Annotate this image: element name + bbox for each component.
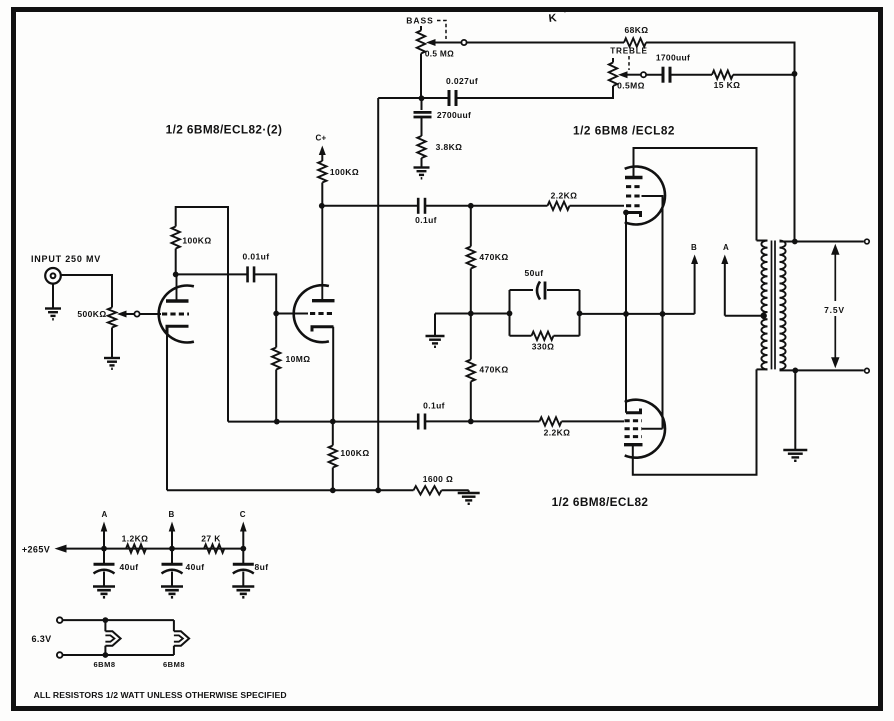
- wire treble wiper to cap: [646, 74, 663, 76]
- heater terminal top: [57, 617, 63, 623]
- label 2700uuf: [437, 110, 471, 120]
- svg-text:0.01uf: 0.01uf: [243, 252, 270, 262]
- svg-text:470KΩ: 470KΩ: [479, 252, 508, 262]
- V3 grid g2 screen: [626, 195, 642, 198]
- resistor 2.2KΩ lower grid stopper: [540, 417, 562, 425]
- svg-text:0.1uf: 0.1uf: [423, 401, 445, 411]
- triode V1 (1/2 6BM8) envelope: [159, 286, 194, 343]
- svg-text:2.2KΩ: 2.2KΩ: [544, 428, 571, 438]
- wire 15K to feedback node: [733, 74, 795, 76]
- bias box bottom branch: [510, 335, 580, 337]
- label 100KΩ (C+ dropping): [330, 167, 359, 177]
- capacitor 0.01uf coupling: [248, 266, 255, 282]
- svg-text:7.5V: 7.5V: [824, 305, 845, 315]
- wire 3.8K to ground: [421, 158, 423, 168]
- svg-text:0.027uf: 0.027uf: [446, 76, 478, 86]
- svg-text:1700uuf: 1700uuf: [656, 53, 690, 63]
- heater filament 6BM8 (1): [105, 620, 120, 655]
- node dot heater top: [103, 617, 109, 623]
- supply arrow A: [721, 255, 766, 316]
- node dot upper grid node: [468, 203, 474, 209]
- svg-text:8uf: 8uf: [255, 562, 269, 572]
- wire volume pot bottom to ground: [111, 328, 113, 359]
- ground (bias): [426, 336, 445, 347]
- potentiometer 500KΩ volume: [108, 308, 135, 328]
- V2 cathode: [312, 327, 334, 332]
- capacitor 0.1uf upper: [418, 198, 425, 214]
- ground (volume pot): [104, 358, 120, 369]
- label TREBLE with dashed pointer: [610, 47, 648, 71]
- svg-text:50uf: 50uf: [524, 268, 543, 278]
- svg-text:330Ω: 330Ω: [532, 342, 555, 352]
- V1 cathode: [167, 326, 189, 334]
- resistor 470KΩ upper: [467, 206, 475, 314]
- capacitor 1700uuf: [663, 67, 670, 83]
- svg-text:6.3V: 6.3V: [31, 634, 51, 644]
- svg-text:`: `: [563, 10, 566, 20]
- ground (secondary): [783, 450, 807, 461]
- svg-text:ALL RESISTORS 1/2 WATT UNLESS: ALL RESISTORS 1/2 WATT UNLESS OTHERWISE …: [34, 690, 287, 700]
- label 0.5MΩ (treble pot): [617, 81, 645, 91]
- capacitor 50uf: [537, 282, 545, 300]
- wire feedback line to cathode rail: [377, 98, 379, 490]
- supply tap arrow B: [169, 522, 176, 552]
- pencil mark K: [548, 10, 566, 25]
- label 1700uuf: [656, 53, 690, 63]
- V4 plate: [624, 443, 643, 446]
- label 6.3V: [31, 634, 51, 644]
- node dot V2 grid: [273, 311, 279, 317]
- V3 grid g1: [626, 204, 642, 207]
- heater terminal bottom: [57, 652, 63, 658]
- wire V1 plate to coupling cap: [176, 273, 247, 275]
- wire secondary bottom to terminal: [780, 369, 864, 371]
- node dot V2 plate/C+ junction: [319, 203, 325, 209]
- label A (supply): [723, 243, 729, 252]
- resistor 27 K: [204, 544, 224, 552]
- wire V2 plate to 0.1uf: [322, 205, 418, 207]
- wire V4 plate to transformer: [633, 369, 757, 474]
- label 1600 Ω: [423, 474, 454, 484]
- wire jack to volume pot: [61, 275, 112, 308]
- label B (tap): [168, 510, 174, 519]
- node dot secondary top: [792, 239, 798, 245]
- svg-text:INPUT 250 MV: INPUT 250 MV: [31, 254, 101, 264]
- resistor 15KΩ: [712, 71, 733, 79]
- supply feed arrow: [55, 545, 244, 553]
- label +265V: [22, 545, 50, 555]
- svg-text:100KΩ: 100KΩ: [182, 236, 211, 246]
- wire bass wiper to 68K: [467, 42, 624, 44]
- svg-text:27 K: 27 K: [201, 534, 221, 544]
- label 2.2KΩ (lower): [544, 428, 571, 438]
- wire bass pot bottom: [420, 54, 422, 99]
- node dot lower grid node: [468, 419, 474, 425]
- label 500KΩ: [77, 309, 106, 319]
- capacitor 40uf (B): [161, 549, 183, 598]
- wire V4 screen to screen bus: [642, 314, 663, 429]
- svg-text:15 KΩ: 15 KΩ: [714, 80, 741, 90]
- V2 grid: [276, 313, 335, 315]
- wire heater bottom line: [63, 654, 174, 656]
- resistor 100KΩ V1 plate load: [172, 227, 180, 275]
- wire jack ground: [52, 283, 54, 308]
- transformer core: [772, 241, 776, 370]
- svg-text:470KΩ: 470KΩ: [479, 365, 508, 375]
- supply arrow C+: [318, 146, 326, 207]
- wire V3 screen to screen bus: [642, 196, 663, 314]
- node dot bass bottom: [419, 95, 425, 101]
- wire secondary top to terminal: [780, 241, 864, 243]
- wire 68K to feedback node: [646, 43, 795, 242]
- wire 100K top bootstrap to lower line: [176, 207, 228, 422]
- transformer center tap: [761, 313, 767, 319]
- label 27 K: [201, 534, 221, 544]
- potentiometer BASS 0.5M: [417, 26, 462, 54]
- svg-text:10MΩ: 10MΩ: [286, 354, 311, 364]
- node dot bias box left: [507, 311, 513, 317]
- wire 0.1uf lower to grid node: [425, 420, 471, 422]
- wire 0.027 cap to corner: [378, 97, 448, 99]
- label 15 KΩ: [714, 80, 741, 90]
- label 1/2 6BM8/ECL82 (lower): [552, 495, 649, 509]
- ground (3.8K): [414, 168, 430, 179]
- node dot bias box right: [577, 311, 583, 317]
- svg-text:B: B: [691, 243, 697, 252]
- resistor 1.2KΩ: [126, 544, 146, 552]
- label 470KΩ (upper): [479, 252, 508, 262]
- wire 2.2K to V4 grid: [562, 420, 625, 422]
- wire ground stub: [434, 314, 436, 337]
- svg-text:500KΩ: 500KΩ: [77, 309, 106, 319]
- wiper terminal circle (bass): [461, 40, 466, 45]
- label 40uf (B): [185, 562, 204, 572]
- label 8uf: [255, 562, 269, 572]
- V4 grid g3: [625, 435, 643, 438]
- capacitor 2700uuf: [414, 99, 432, 118]
- capacitor 0.027uf: [449, 90, 456, 106]
- wire cathode rail: [167, 489, 469, 491]
- label 0.1uf (lower): [423, 401, 445, 411]
- wire cap to 15K: [670, 74, 712, 76]
- capacitor 0.1uf lower: [418, 414, 425, 430]
- label 6BM8 (1): [93, 660, 115, 669]
- resistor 1600Ω: [414, 486, 442, 494]
- svg-text:BASS: BASS: [406, 16, 434, 26]
- svg-text:1/2 6BM8 /ECL82: 1/2 6BM8 /ECL82: [573, 124, 675, 138]
- wire secondary to ground: [794, 370, 796, 450]
- node dot heater bottom: [103, 652, 109, 658]
- svg-text:1.2KΩ: 1.2KΩ: [122, 534, 149, 544]
- svg-text:+265V: +265V: [22, 545, 50, 555]
- label 40uf (A): [119, 562, 138, 572]
- capacitor 8uf (C): [232, 549, 254, 598]
- svg-text:40uf: 40uf: [185, 562, 204, 572]
- svg-text:3.8KΩ: 3.8KΩ: [436, 142, 463, 152]
- wire 2700uuf to 3.8K: [421, 117, 423, 136]
- wire to 2.2K lower: [471, 420, 540, 422]
- node dot screen junction: [660, 311, 666, 317]
- label 1/2 6BM8/ECL82.(2): [166, 123, 283, 137]
- V3 plate: [625, 176, 643, 179]
- svg-text:0.5 MΩ: 0.5 MΩ: [425, 49, 454, 59]
- node dot bias node left: [468, 311, 474, 317]
- label 0.5 MΩ (bass pot): [425, 49, 454, 59]
- node dot V1 plate: [173, 272, 179, 278]
- label 6BM8 (2): [163, 660, 185, 669]
- label 0.1uf (upper): [415, 215, 437, 225]
- bias box right side: [579, 290, 581, 336]
- wire lower line: [228, 421, 418, 423]
- V3 grid g3: [626, 185, 642, 188]
- label 470KΩ (lower): [479, 365, 508, 375]
- label C (tap): [240, 510, 246, 519]
- wire coupling cap to V2 grid: [254, 274, 276, 313]
- label 1.2KΩ: [122, 534, 149, 544]
- svg-text:40uf: 40uf: [119, 562, 138, 572]
- label BASS with dashed pointer: [406, 16, 446, 40]
- note all resistors: [34, 690, 287, 700]
- wire V1 cathode to rail: [166, 332, 168, 490]
- label C+: [315, 134, 326, 143]
- svg-text:100KΩ: 100KΩ: [340, 448, 369, 458]
- label 3.8KΩ: [436, 142, 463, 152]
- V3 cathode: [623, 210, 640, 217]
- ground (cathode rail): [458, 490, 480, 504]
- wire heater top line: [63, 619, 174, 621]
- V4 grid g1: [625, 419, 643, 422]
- transformer T1 secondary: [780, 241, 786, 370]
- supply tap arrow A: [101, 522, 108, 552]
- node dot 15K/68K junction: [792, 71, 798, 77]
- svg-text:0.1uf: 0.1uf: [415, 215, 437, 225]
- wiper terminal circle (treble): [641, 72, 646, 77]
- wire treble bottom to bass node: [457, 86, 613, 98]
- svg-text:A: A: [723, 243, 729, 252]
- V1 grid: [162, 313, 189, 316]
- bias box top branch: [510, 289, 580, 291]
- svg-text:1600 Ω: 1600 Ω: [423, 474, 454, 484]
- svg-text:2700uuf: 2700uuf: [437, 110, 471, 120]
- node dot cathode-load bottom: [330, 487, 336, 493]
- label 10MΩ: [286, 354, 311, 364]
- node dot feedback-rail junction: [375, 487, 381, 493]
- V1 plate: [166, 274, 189, 301]
- ground (input jack): [45, 309, 61, 320]
- resistor 10MΩ grid leak: [272, 314, 280, 422]
- svg-text:C+: C+: [315, 134, 326, 143]
- triode V2 phase splitter envelope: [294, 285, 329, 342]
- wire cathode bus: [625, 213, 627, 413]
- wiper terminal circle (volume): [134, 311, 139, 316]
- svg-text:6BM8: 6BM8: [163, 660, 185, 669]
- label A (tap): [101, 510, 107, 519]
- resistor 330Ω: [532, 332, 554, 340]
- svg-text:B: B: [168, 510, 174, 519]
- wire bias to cathode-screen junction: [580, 313, 695, 315]
- capacitor 40uf (A): [93, 549, 115, 598]
- wire 0.1uf to grid node: [425, 205, 471, 207]
- wire V3 plate to transformer: [634, 148, 757, 241]
- bias box left side: [509, 290, 511, 336]
- output terminal top: [865, 239, 870, 244]
- resistor 470KΩ lower: [467, 314, 475, 422]
- label 2.2KΩ (upper): [551, 191, 578, 201]
- pentode V3 envelope: [625, 167, 665, 225]
- heater filament 6BM8 (2): [174, 620, 189, 655]
- node dot 10M bottom: [274, 419, 280, 425]
- svg-text:100KΩ: 100KΩ: [330, 167, 359, 177]
- transformer T1 primary: [757, 241, 768, 370]
- label 1/2 6BM8 /ECL82 (upper): [573, 124, 675, 138]
- svg-text:A: A: [101, 510, 107, 519]
- label 68KΩ: [624, 25, 648, 35]
- wire V2 cathode down: [332, 327, 334, 422]
- label B (supply): [691, 243, 697, 252]
- V2 plate: [312, 206, 335, 301]
- V4 grid g2 screen: [625, 427, 643, 430]
- label INPUT 250 MV: [31, 254, 101, 264]
- svg-text:1/2 6BM8/ECL82·(2): 1/2 6BM8/ECL82·(2): [166, 123, 283, 137]
- wire ground tee to bias box: [435, 313, 510, 315]
- label 330Ω: [532, 342, 555, 352]
- svg-text:0.5MΩ: 0.5MΩ: [617, 81, 645, 91]
- resistor 2.2KΩ upper grid stopper: [548, 202, 570, 210]
- node dot secondary bottom: [792, 368, 798, 374]
- output terminal bottom: [865, 368, 870, 373]
- supply arrow B: [691, 255, 698, 314]
- pentode V4 envelope: [625, 400, 665, 458]
- node dot cathode junction: [623, 311, 629, 317]
- svg-text:68KΩ: 68KΩ: [624, 25, 648, 35]
- svg-text:1/2 6BM8/ECL82: 1/2 6BM8/ECL82: [552, 495, 649, 509]
- label 100KΩ (cathode load): [340, 448, 369, 458]
- 7.5V measurement arrow: [820, 244, 851, 368]
- label 0.01uf: [243, 252, 270, 262]
- node dot V2 cathode: [330, 419, 336, 425]
- svg-text:TREBLE: TREBLE: [610, 47, 648, 56]
- resistor 3.8KΩ: [417, 136, 425, 158]
- label 50uf: [524, 268, 543, 278]
- wire wiper to V1 grid: [140, 313, 161, 315]
- resistor 100KΩ cathode load: [329, 422, 337, 491]
- input jack J1: [45, 268, 61, 284]
- supply tap arrow C: [240, 522, 247, 552]
- resistor 68KΩ: [624, 38, 646, 46]
- svg-text:6BM8: 6BM8: [93, 660, 115, 669]
- V4 cathode: [626, 409, 641, 413]
- label 0.027uf: [446, 76, 478, 86]
- wire to 2.2K upper: [471, 205, 548, 207]
- svg-text:2.2KΩ: 2.2KΩ: [551, 191, 578, 201]
- svg-text:C: C: [240, 510, 246, 519]
- potentiometer TREBLE 0.5M: [609, 58, 641, 86]
- label 100KΩ (V1 load): [182, 236, 211, 246]
- wire 2.2K to V3 grid: [570, 205, 625, 207]
- svg-text:Κ: Κ: [548, 12, 557, 25]
